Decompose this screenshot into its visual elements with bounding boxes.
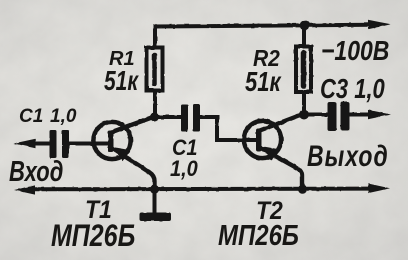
svg-text:Выход: Выход (307, 139, 389, 173)
output arrow (368, 110, 391, 120)
svg-text:−100В: −100В (321, 36, 389, 66)
transistor T2 emitter (259, 147, 302, 190)
transistor T2 emitter arrow (PNP) (262, 146, 279, 160)
resistor R2 inner bar (301, 53, 307, 86)
wire: input lead to T1 base (30, 142, 110, 146)
transistor T2 circle (244, 121, 281, 158)
bottom rail arrow left (14, 185, 35, 194)
wire: top rail drop to R2 (302, 26, 306, 47)
transistor T2 base bar (256, 129, 262, 152)
node B: R2 / T2 collector / C3 (299, 110, 309, 120)
transistor T1 collector (111, 117, 155, 133)
capacitor C3 plates (328, 102, 350, 132)
junction: T2 emitter on bottom rail (298, 185, 307, 194)
svg-text:Вход: Вход (9, 156, 63, 187)
junction node: R2 top on rail (300, 20, 310, 30)
transistor T1 base bar (108, 130, 114, 152)
wire: node B to capacitor C3 (304, 113, 328, 117)
transistor T1 emitter (111, 148, 155, 191)
transistor T1 circle (93, 122, 130, 159)
wire: -100V top rail with corner down to R1 (155, 25, 372, 46)
svg-text:51к: 51к (104, 67, 139, 97)
transistor T1 emitter arrow (PNP) (114, 147, 131, 161)
wire: C3 to output arrow (350, 113, 371, 117)
wire: node A to capacitor C1 (155, 115, 182, 119)
resistor R1 inner bar (152, 55, 157, 84)
bottom rail wire (30, 187, 372, 192)
transistor T2 collector (259, 114, 304, 131)
svg-text:С3 1,0: С3 1,0 (320, 74, 385, 105)
ground bar (140, 213, 172, 222)
power arrow (top right) (368, 20, 391, 30)
svg-text:1,0: 1,0 (50, 106, 77, 127)
svg-text:С1: С1 (19, 106, 43, 127)
wire: C1 to T2 base (200, 117, 258, 140)
junction: T1 emitter on bottom rail (150, 185, 159, 194)
node A: R1 / T1 collector / C1 (150, 113, 159, 122)
wire: R1 bottom to node A (153, 90, 157, 117)
svg-text:1,0: 1,0 (170, 157, 198, 181)
resistor R2 body (296, 47, 311, 93)
svg-text:МП26Б: МП26Б (218, 219, 299, 252)
capacitor C1 (coupling) plates (181, 104, 200, 132)
svg-text:МП26Б: МП26Б (51, 217, 135, 252)
capacitor C1 (input) plates (50, 130, 70, 158)
bottom rail arrow right (368, 184, 390, 194)
resistor R1 body (147, 48, 163, 91)
input arrow (left) (14, 139, 36, 149)
svg-text:51к: 51к (245, 67, 282, 98)
ground stem (153, 189, 157, 213)
wire: R2 bottom to node B (302, 92, 306, 115)
